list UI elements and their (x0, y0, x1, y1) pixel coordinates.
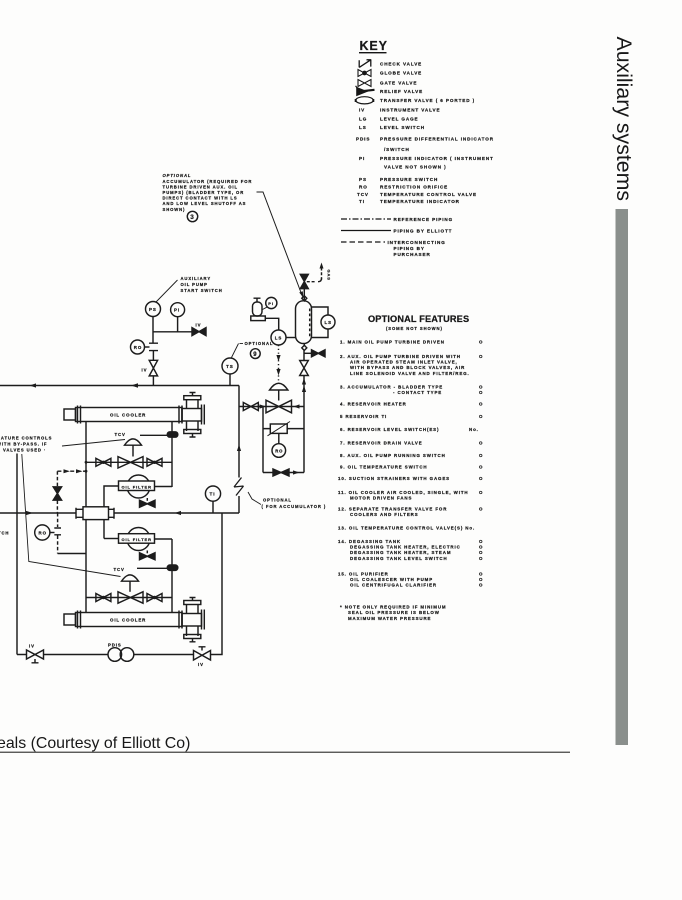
svg-text:6. RESERVOIR LEVEL SWITCH(ES): 6. RESERVOIR LEVEL SWITCH(ES) (340, 427, 439, 432)
svg-text:Auxiliary systems: Auxiliary systems (612, 37, 636, 202)
arrow left on control wire (294, 404, 300, 408)
TCV U2 sense line (137, 567, 167, 569)
svg-text:O: O (479, 465, 483, 470)
wire PS stem (152, 317, 154, 344)
svg-text:3. ACCUMULATOR - BLADDER TYP: 3. ACCUMULATOR - BLADDER TYPE (340, 385, 443, 390)
svg-text:TI: TI (359, 199, 365, 204)
wire PI stem (177, 317, 179, 332)
bypass loop left drop (262, 407, 264, 473)
svg-text:No.: No. (469, 427, 479, 432)
svg-text:( FOR ACCUMULATOR ): ( FOR ACCUMULATOR ) (262, 504, 327, 509)
svg-text:- CONTACT TYPE: - CONTACT TYPE (393, 390, 442, 395)
svg-text:CHECK VALVE: CHECK VALVE (380, 62, 422, 67)
svg-text:O: O (479, 545, 483, 550)
svg-text:PIPING BY: PIPING BY (394, 246, 425, 251)
oil cooler E2 (lower) (64, 598, 204, 642)
pressure indicator PI small (266, 297, 277, 308)
svg-text:RATURE CONTROLS: RATURE CONTROLS (0, 436, 52, 441)
dome stem (278, 390, 280, 401)
sidebar grey bar (616, 209, 629, 745)
svg-text:TEMPERATURE CONTROL VALVE: TEMPERATURE CONTROL VALVE (380, 192, 477, 197)
svg-text:O: O (479, 476, 483, 481)
junction dot row1 left (85, 461, 88, 464)
svg-text:SEAL OIL PRESSURE IS BELOW: SEAL OIL PRESSURE IS BELOW (348, 610, 440, 615)
globe valve V2 (147, 458, 162, 466)
svg-text:IV: IV (196, 322, 202, 327)
svg-text:O: O (479, 571, 483, 576)
svg-text:O: O (479, 441, 483, 446)
bypass arrows (64, 469, 83, 473)
leader dash before optional (240, 343, 244, 345)
capacitor style break upper (149, 343, 158, 350)
reference piping line sample (341, 218, 391, 220)
svg-text:TRANSFER VALVE ( 6 PORTED ): TRANSFER VALVE ( 6 PORTED ) (380, 98, 475, 103)
svg-text:KEY: KEY (360, 39, 388, 53)
riser arrows up (302, 378, 306, 392)
capacitor style break on sense line (54, 528, 61, 535)
svg-text:(SOME NOT SHOWN): (SOME NOT SHOWN) (386, 326, 443, 331)
svg-text:LG: LG (359, 117, 367, 122)
svg-text:14. DEGASSING TANK: 14. DEGASSING TANK (338, 539, 401, 544)
svg-text:1. MAIN OIL PUMP TURBINE DRIVE: 1. MAIN OIL PUMP TURBINE DRIVEN (340, 340, 445, 345)
accumulator vessel T1 (296, 301, 312, 344)
wire filter F1 left (104, 486, 119, 507)
wire bottom header (17, 654, 194, 656)
svg-text:LEVEL GAGE: LEVEL GAGE (380, 117, 419, 122)
TI stem (212, 501, 214, 513)
wire left drop (16, 454, 18, 655)
svg-text:11. OIL COOLER AIR COOLED, SIN: 11. OIL COOLER AIR COOLED, SINGLE, WITH (338, 490, 468, 495)
svg-text:DIRECT CONTACT WITH LS: DIRECT CONTACT WITH LS (163, 196, 238, 201)
svg-text:OPTIONAL: OPTIONAL (263, 498, 292, 503)
svg-text:O: O (479, 354, 483, 359)
wire right riser upper (238, 386, 240, 514)
TS stem (229, 374, 231, 386)
arrow on top header left (30, 383, 37, 387)
interconnecting piping line sample (341, 241, 385, 243)
restriction orifice RO (main line tap) (35, 525, 50, 540)
control valve CV1 bowtie (118, 457, 143, 468)
relief box with slash (270, 424, 287, 433)
relief valve symbol (356, 86, 375, 96)
filter F1 drain valve (146, 498, 148, 501)
filter F2 drain valve (146, 551, 148, 554)
svg-text:RO: RO (275, 448, 283, 453)
wire filter F1 right (155, 486, 173, 488)
GAS label (rotated) (326, 270, 331, 281)
svg-text:O: O (479, 490, 483, 495)
svg-text:9. OIL TEMPERATURE SWITCH: 9. OIL TEMPERATURE SWITCH (340, 465, 427, 470)
svg-text:AND LOW LEVEL SHUTOFF AS: AND LOW LEVEL SHUTOFF AS (163, 201, 247, 206)
bypass loop bottom wire (263, 472, 304, 474)
leader to optional label (248, 492, 261, 505)
svg-text:O: O (479, 401, 483, 406)
svg-text:OIL FILTER: OIL FILTER (122, 484, 152, 489)
svg-text:IV: IV (198, 662, 204, 667)
bladder dashed line (309, 309, 311, 337)
wire filter F2 left (104, 538, 119, 540)
globe valve symbol (358, 70, 371, 77)
svg-text:INTERCONNECTING: INTERCONNECTING (388, 240, 446, 245)
transfer valve TV1 (6 ported) (76, 507, 114, 520)
relief valve PSV (251, 298, 265, 320)
bypass dashed line upper (57, 470, 86, 472)
accumulator TCV dome (270, 383, 288, 390)
wire LS loop bottom (312, 329, 329, 338)
svg-text:10. SUCTION STRAINERS WITH GAG: 10. SUCTION STRAINERS WITH GAGES (338, 476, 450, 481)
svg-text:eals (Courtesy of Elliott Co): eals (Courtesy of Elliott Co) (0, 735, 190, 752)
oil filter F1 (119, 475, 155, 498)
temperature controls note (0, 436, 52, 453)
gas charging valve (filled, vertical) (300, 274, 308, 288)
svg-text:PI: PI (174, 308, 180, 313)
svg-text:RELIEF VALVE: RELIEF VALVE (380, 89, 423, 94)
svg-text:4. RESERVOIR HEATER: 4. RESERVOIR HEATER (340, 401, 407, 406)
transfer valve symbol (356, 97, 374, 104)
accumulator control valve CV3 (266, 400, 292, 413)
svg-text:O: O (479, 550, 483, 555)
level switch LS left (271, 330, 286, 345)
svg-text:RO: RO (39, 530, 47, 535)
arrow right on control wire (260, 404, 267, 408)
leader diagonal to lower TCV (22, 454, 121, 577)
instrument valve IV top (filled) (192, 328, 206, 336)
svg-text:LINE SOLENOID VALVE AND FILTER: LINE SOLENOID VALVE AND FILTER/REG. (350, 371, 470, 376)
arrow on top header (131, 383, 138, 387)
svg-text:AIR OPERATED STEAM INLET VALVE: AIR OPERATED STEAM INLET VALVE, (350, 360, 458, 365)
label optional for accumulator (262, 498, 327, 509)
arrow on main header left (26, 511, 33, 515)
PI leader (263, 307, 268, 310)
wire filter F2 right drop (171, 539, 173, 613)
sense line to lower branch (58, 553, 86, 555)
RO tap stub (50, 532, 55, 534)
arrow on main header right (175, 511, 182, 515)
svg-text:2. AUX. OIL PUMP TURBINE DRIVE: 2. AUX. OIL PUMP TURBINE DRIVEN WITH (340, 354, 461, 359)
wire main return header (0, 512, 239, 514)
svg-text:PI: PI (268, 301, 274, 306)
sense line dashed below RO (57, 513, 59, 554)
gate valve on riser (open, vertical) (300, 361, 309, 376)
wire cooler E1 right to orifice and row (171, 422, 173, 488)
caption rule (0, 752, 570, 753)
optional label near TS (245, 341, 274, 346)
svg-text:O: O (479, 390, 483, 395)
wire to top header (152, 376, 154, 386)
svg-text:O: O (479, 453, 483, 458)
svg-text:TCV: TCV (114, 567, 125, 572)
svg-text:PS: PS (359, 177, 367, 182)
check valve symbol (359, 59, 371, 67)
control valve CV2 bowtie (118, 592, 143, 603)
svg-text:WITH BYPASS AND BLOCK VALVES,: WITH BYPASS AND BLOCK VALVES, AIR (350, 365, 465, 370)
svg-text:GATE VALVE: GATE VALVE (380, 80, 417, 85)
arrow on bottom wire (293, 470, 300, 474)
arrow up on right riser (237, 445, 241, 452)
svg-text:IV: IV (142, 367, 148, 372)
instrument valve IV bottom right (194, 647, 211, 667)
wire filter F2 right (155, 538, 173, 540)
svg-text:SHOWN): SHOWN) (163, 207, 186, 212)
wire transfer valve down to cooler E2 (85, 520, 87, 613)
svg-text:PDIS: PDIS (356, 136, 370, 141)
wire top supply header (0, 385, 239, 387)
restriction orifice FE upper (167, 432, 178, 437)
svg-text:ACCUMULATOR (REQUIRED FOR: ACCUMULATOR (REQUIRED FOR (163, 179, 253, 184)
circled 9 (250, 349, 260, 359)
restriction orifice FE lower (167, 565, 178, 570)
circled 3 (187, 211, 197, 221)
bypass loop wire to relief box (263, 428, 304, 430)
gate valve symbol (358, 80, 371, 87)
valve row 1 wire (86, 461, 172, 463)
svg-text:7. RESERVOIR DRAIN VALVE: 7. RESERVOIR DRAIN VALVE (340, 441, 423, 446)
signal arrows down (276, 355, 280, 376)
bottom drain valve (filled) (273, 469, 289, 476)
svg-text:PS: PS (149, 307, 157, 312)
svg-text:COOLERS AND FILTERS: COOLERS AND FILTERS (350, 512, 419, 517)
TCV U1 sense line (140, 434, 167, 436)
wire down to IV gate (152, 351, 154, 361)
svg-text:3: 3 (190, 214, 194, 221)
svg-text:* NOTE ONLY REQUIRED IF MINIM: * NOTE ONLY REQUIRED IF MINIMUM (340, 605, 446, 610)
svg-text:IV: IV (359, 108, 365, 113)
instrument gate valve IV (open, vertical) (149, 360, 157, 376)
svg-text:PDIS: PDIS (108, 643, 122, 648)
pressure switch PS (146, 302, 161, 317)
svg-text:MAXIMUM WATER PRESSURE: MAXIMUM WATER PRESSURE (348, 616, 431, 621)
wire cooler E1 to valve row (85, 422, 87, 508)
TI indicator (205, 486, 220, 501)
level switch LS right (321, 315, 335, 329)
svg-text:O: O (479, 414, 483, 419)
svg-text:13. OIL TEMPERATURE CONTROL VA: 13. OIL TEMPERATURE CONTROL VALVE(S) No. (338, 526, 475, 531)
svg-text:TCV: TCV (357, 192, 369, 197)
TCV U2 label (114, 567, 125, 572)
TCV U2 actuator dome (122, 575, 139, 581)
svg-text:OIL CENTRIFUGAL CLARIFIER: OIL CENTRIFUGAL CLARIFIER (350, 583, 437, 588)
svg-text:TEMPERATURE INDICATOR: TEMPERATURE INDICATOR (380, 199, 460, 204)
svg-text:OIL COOLER: OIL COOLER (110, 618, 146, 623)
svg-text:OPTIONAL FEATURES: OPTIONAL FEATURES (368, 314, 469, 324)
svg-text:TCH: TCH (0, 531, 9, 536)
svg-text:REFERENCE PIPING: REFERENCE PIPING (394, 217, 454, 222)
wire vessel to LS loop top (312, 307, 329, 315)
wire instrument header (153, 331, 192, 333)
svg-text:MOTOR DRIVEN FANS: MOTOR DRIVEN FANS (350, 496, 412, 501)
svg-text:OPTIONAL: OPTIONAL (245, 341, 274, 346)
svg-text:OIL COALESCER WITH PUMP: OIL COALESCER WITH PUMP (350, 577, 433, 582)
svg-text:RO: RO (359, 185, 368, 190)
svg-text:RO: RO (134, 345, 142, 350)
globe valve V3 (96, 594, 111, 602)
svg-text:O: O (479, 539, 483, 544)
bypass gate valve (closed) (53, 487, 61, 500)
svg-text:O: O (479, 556, 483, 561)
gas line arrow (307, 268, 322, 282)
svg-text:TS: TS (226, 364, 234, 369)
svg-text:VALVE NOT SHOWN ): VALVE NOT SHOWN ) (384, 164, 447, 169)
gate valve small left (243, 403, 258, 411)
dotted signal LS to TCV dome (278, 345, 280, 382)
globe valve V4 (147, 594, 162, 602)
svg-text:O: O (479, 340, 483, 345)
accumulator note text (163, 173, 253, 212)
svg-text:O: O (479, 507, 483, 512)
svg-text:OIL PUMP: OIL PUMP (181, 282, 208, 287)
leader from note to accumulator (257, 192, 303, 297)
wire gas valve to vessel (303, 289, 305, 296)
svg-text:O: O (479, 385, 483, 390)
svg-text:RESTRICTION ORIFICE: RESTRICTION ORIFICE (380, 185, 448, 190)
svg-text:DEGASSING TANK LEVEL SWITCH: DEGASSING TANK LEVEL SWITCH (350, 556, 448, 561)
drain valve branch (304, 352, 311, 354)
svg-text:/SWITCH: /SWITCH (384, 147, 410, 152)
svg-text:8. AUX. OIL PUMP RUNNING SWITC: 8. AUX. OIL PUMP RUNNING SWITCH (340, 453, 446, 458)
svg-text:PRESSURE SWITCH: PRESSURE SWITCH (380, 177, 438, 182)
PDIS differential indicator (108, 643, 134, 662)
restriction orifice RO upper (131, 340, 145, 354)
svg-text:OIL COOLER: OIL COOLER (110, 413, 146, 418)
relief element on riser (optional for accumulator) (234, 478, 244, 496)
svg-text:PURCHASER: PURCHASER (394, 252, 431, 257)
svg-text:5 RESERVOIR TI: 5 RESERVOIR TI (340, 414, 387, 419)
oil cooler E1 (upper) (64, 393, 204, 438)
svg-text:GLOBE VALVE: GLOBE VALVE (380, 71, 422, 76)
svg-text:GAS: GAS (326, 270, 331, 281)
svg-text:WITH BY-PASS. IF: WITH BY-PASS. IF (0, 442, 47, 447)
svg-text:IV: IV (29, 644, 35, 649)
auxiliary oil pump start switch note (181, 276, 223, 293)
svg-text:LS: LS (359, 125, 367, 130)
restriction orifice RO accumulator (272, 444, 286, 458)
wire LS to vessel (286, 337, 296, 339)
svg-text:OIL FILTER: OIL FILTER (122, 537, 152, 542)
leader to PS (156, 280, 178, 302)
svg-text:TURBINE DRIVEN AUX. OIL: TURBINE DRIVEN AUX. OIL (163, 184, 238, 189)
RO stub (145, 346, 150, 348)
node diamond bottom (302, 345, 307, 350)
svg-text:LS: LS (325, 320, 332, 325)
svg-text:DEGASSING TANK HEATER, ELECTRI: DEGASSING TANK HEATER, ELECTRIC (350, 545, 461, 550)
instrument valve IV bottom left (27, 644, 44, 663)
svg-text:PRESSURE DIFFERENTIAL INDICATO: PRESSURE DIFFERENTIAL INDICATOR (380, 136, 494, 141)
valve row 2 wire (86, 597, 172, 599)
pressure indicator PI (171, 303, 185, 317)
leader from note to upper TCV (62, 440, 125, 447)
svg-text:PIPING BY ELLIOTT: PIPING BY ELLIOTT (394, 229, 453, 234)
svg-text:TI: TI (210, 492, 216, 497)
svg-text:R VALVES USED ·: R VALVES USED · (0, 448, 46, 453)
wire transfer valve down to filter F2 (103, 520, 105, 539)
svg-text:TCV: TCV (115, 432, 126, 437)
junction dot bypass top (85, 470, 88, 473)
svg-text:INSTRUMENT VALVE: INSTRUMENT VALVE (380, 108, 440, 113)
svg-text:PI: PI (359, 156, 365, 161)
TCV U1 label (115, 432, 126, 437)
wire lower right drop (211, 513, 223, 655)
accumulator control valve wire (239, 406, 304, 408)
stem to RO (278, 433, 280, 443)
temperature switch TS (222, 358, 238, 374)
svg-text:AUXILIARY: AUXILIARY (181, 276, 212, 281)
svg-text:LEVEL SWITCH: LEVEL SWITCH (380, 125, 425, 130)
svg-text:START SWITCH: START SWITCH (181, 288, 223, 293)
piping by elliott line sample (341, 230, 391, 232)
svg-text:O: O (479, 583, 483, 588)
svg-text:15. OIL PURIFIER: 15. OIL PURIFIER (338, 571, 389, 576)
bypass dashed drop (56, 471, 58, 513)
svg-text:12. SEPARATE TRANSFER VALVE FO: 12. SEPARATE TRANSFER VALVE FOR (338, 507, 447, 512)
svg-text:PUMPS) (BLADDER TYPE, OR: PUMPS) (BLADDER TYPE, OR (163, 190, 245, 195)
wire relief valve to LS drop (265, 318, 278, 330)
switch text fragment (0, 531, 9, 536)
globe valve V1 (96, 458, 111, 466)
svg-text:DEGASSING TANK HEATER, STEAM: DEGASSING TANK HEATER, STEAM (350, 550, 451, 555)
wire riser down (303, 351, 305, 473)
leader arrowhead (299, 291, 303, 297)
oil filter F2 (119, 528, 155, 551)
node diamond top (302, 296, 307, 301)
svg-text:OPTIONAL: OPTIONAL (163, 173, 192, 178)
TCV U1 stem (132, 445, 134, 456)
drain valve (filled) (312, 350, 326, 357)
wire vessel bottom riser (303, 296, 305, 346)
TS leader (232, 344, 239, 358)
TCV U2 stem (129, 581, 131, 592)
svg-text:9: 9 (253, 352, 257, 358)
svg-text:O: O (479, 577, 483, 582)
svg-text:LS: LS (275, 336, 282, 341)
svg-text:PRESSURE INDICATOR ( INSTRUMEN: PRESSURE INDICATOR ( INSTRUMENT (380, 156, 494, 161)
TCV U1 actuator dome (125, 439, 142, 445)
